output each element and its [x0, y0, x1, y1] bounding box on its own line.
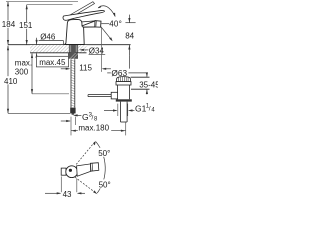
threaded end	[70, 108, 75, 114]
waste body through deck	[118, 85, 130, 99]
deck cross-section band with hatch	[30, 45, 69, 53]
spout (top view)	[77, 164, 91, 176]
svg-text:50°: 50°	[99, 180, 111, 189]
35-45 deck thickness arrows	[146, 72, 148, 94]
410 bottom reference line	[8, 112, 70, 114]
threaded stud through deck	[71, 45, 75, 53]
40deg swing arc with arrows	[98, 6, 115, 16]
dimension 184	[7, 2, 9, 45]
svg-text:151: 151	[19, 21, 33, 30]
center dot	[69, 169, 72, 172]
svg-text:35-45: 35-45	[139, 81, 158, 90]
seal washer under flange	[116, 82, 131, 85]
dimension 43	[60, 176, 62, 192]
O63 label	[107, 72, 111, 74]
svg-text:84: 84	[125, 32, 134, 41]
dimension 115	[100, 27, 102, 72]
svg-text:43: 43	[63, 190, 72, 199]
mounting nut	[68, 53, 78, 59]
deck top line	[8, 44, 131, 46]
supply pipe	[71, 59, 75, 107]
svg-text:40°: 40°	[109, 19, 122, 28]
dimension max.180	[71, 130, 126, 132]
closed lever	[63, 10, 104, 20]
svg-text:184: 184	[2, 20, 16, 29]
max.45 box	[36, 56, 68, 67]
svg-text:50°: 50°	[98, 149, 110, 158]
G3/8 detail: extension lines under pipe	[70, 117, 72, 136]
50 deg labels	[98, 148, 112, 157]
swivel dashed lines	[76, 142, 95, 165]
svg-text:max.180: max.180	[78, 124, 109, 133]
G1 1/4 dimension	[117, 104, 119, 116]
hex nut slab	[116, 99, 132, 101]
svg-text:115: 115	[79, 64, 92, 73]
aerator (top view)	[90, 163, 98, 172]
svg-text:max.45: max.45	[39, 58, 66, 67]
lever stub	[61, 168, 66, 175]
raised lever (thin outline)	[68, 2, 94, 18]
dimension 151	[26, 5, 28, 45]
rod boss	[111, 92, 117, 99]
max300 bottom ref line	[32, 93, 69, 95]
water stream line with arrow	[101, 27, 112, 40]
dimension 84: top tick at aerator level	[125, 22, 135, 24]
extension line (151 ref, y=4.6)	[27, 4, 73, 6]
tailpipe	[121, 102, 128, 122]
swivel arc	[96, 142, 105, 193]
waste flange dome with knurl	[117, 77, 131, 82]
pop-up rod	[88, 95, 111, 97]
spout top/bottom lines	[82, 21, 95, 27]
40 deg label leader	[101, 23, 109, 25]
svg-text:410: 410	[4, 77, 18, 86]
svg-text:300: 300	[15, 68, 29, 77]
max.45 deck thickness arrows	[36, 38, 38, 60]
svg-text:max.: max.	[15, 58, 32, 67]
dimension 410	[7, 46, 9, 114]
deck at waste (right side)	[131, 76, 150, 78]
dimension max.300	[31, 53, 33, 93]
svg-text:Ø46: Ø46	[40, 32, 56, 41]
shank through deck	[69, 45, 77, 53]
aerator	[95, 21, 101, 28]
body circle	[66, 166, 78, 178]
extension line top (184 ref, y=1.6)	[6, 1, 78, 3]
faucet body with pivot dome and spout	[65, 19, 95, 44]
